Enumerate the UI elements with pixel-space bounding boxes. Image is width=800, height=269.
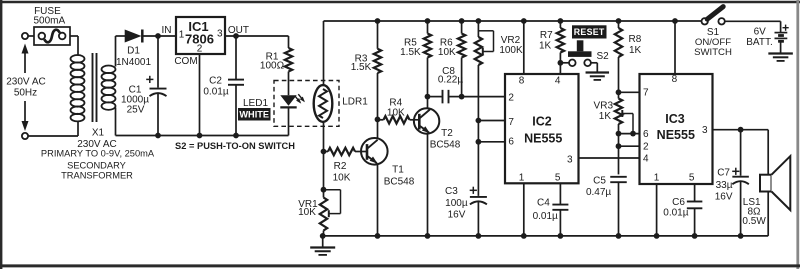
svg-text:IC3: IC3 — [665, 112, 685, 126]
svg-text:100µ: 100µ — [445, 198, 468, 209]
svg-text:NE555: NE555 — [524, 132, 562, 146]
svg-text:33µ: 33µ — [716, 180, 733, 191]
svg-text:T1: T1 — [392, 164, 404, 175]
svg-text:5: 5 — [689, 172, 695, 183]
svg-text:10K: 10K — [298, 207, 316, 218]
svg-text:6V: 6V — [754, 26, 767, 37]
svg-text:RESET: RESET — [574, 27, 605, 37]
svg-text:8: 8 — [672, 74, 678, 85]
svg-text:16V: 16V — [448, 210, 466, 221]
svg-text:LED1: LED1 — [243, 98, 268, 109]
svg-text:0.01µ: 0.01µ — [203, 87, 228, 98]
svg-text:100Ω: 100Ω — [260, 60, 285, 71]
svg-text:OUT: OUT — [228, 25, 249, 36]
svg-text:WHITE: WHITE — [239, 110, 269, 120]
svg-text:3: 3 — [702, 125, 708, 136]
svg-text:VR3: VR3 — [594, 100, 614, 111]
svg-text:BC548: BC548 — [384, 177, 415, 188]
svg-text:6: 6 — [508, 137, 514, 148]
svg-text:C2: C2 — [209, 75, 222, 86]
svg-text:1: 1 — [519, 172, 525, 183]
svg-text:0.01µ: 0.01µ — [533, 211, 558, 222]
svg-text:IN: IN — [162, 25, 172, 36]
svg-text:10K: 10K — [387, 108, 405, 119]
svg-text:SWITCH: SWITCH — [694, 47, 732, 58]
svg-text:T2: T2 — [441, 128, 453, 139]
svg-text:1K: 1K — [539, 41, 552, 52]
svg-text:3: 3 — [567, 154, 573, 165]
svg-text:SECONDARY: SECONDARY — [67, 160, 126, 170]
svg-text:10K: 10K — [333, 173, 351, 184]
svg-text:500mA: 500mA — [33, 16, 65, 27]
svg-text:BATT.: BATT. — [746, 37, 772, 48]
svg-text:4: 4 — [643, 153, 649, 164]
svg-text:0.22µ: 0.22µ — [438, 74, 463, 85]
svg-text:C3: C3 — [445, 186, 458, 197]
svg-text:1N4001: 1N4001 — [116, 57, 151, 68]
svg-text:NE555: NE555 — [657, 128, 695, 142]
svg-text:1.5K: 1.5K — [400, 47, 421, 58]
svg-text:2: 2 — [643, 142, 649, 153]
svg-text:3: 3 — [217, 28, 223, 39]
svg-text:2: 2 — [197, 43, 203, 54]
svg-text:16V: 16V — [715, 191, 733, 202]
svg-text:LDR1: LDR1 — [342, 97, 368, 108]
svg-text:8: 8 — [519, 75, 525, 86]
svg-text:50Hz: 50Hz — [14, 87, 37, 98]
svg-text:S2 = PUSH-TO-ON SWITCH: S2 = PUSH-TO-ON SWITCH — [175, 141, 295, 151]
svg-text:2: 2 — [508, 93, 514, 104]
svg-text:4: 4 — [555, 75, 561, 86]
svg-text:0.5W: 0.5W — [742, 216, 766, 227]
svg-text:0.47µ: 0.47µ — [586, 187, 611, 198]
svg-text:R2: R2 — [334, 161, 347, 172]
svg-text:1.5K: 1.5K — [351, 62, 372, 73]
svg-text:TRANSFORMER: TRANSFORMER — [61, 170, 133, 180]
svg-text:X1: X1 — [92, 127, 105, 138]
svg-text:C4: C4 — [537, 198, 550, 209]
svg-text:1: 1 — [654, 172, 660, 183]
svg-text:1: 1 — [179, 29, 185, 40]
svg-text:C6: C6 — [672, 197, 685, 208]
svg-text:C7: C7 — [717, 167, 730, 178]
svg-text:6: 6 — [643, 129, 649, 140]
svg-text:5: 5 — [555, 172, 561, 183]
svg-text:100K: 100K — [499, 45, 523, 56]
svg-text:0.01µ: 0.01µ — [663, 207, 688, 218]
svg-text:10K: 10K — [438, 47, 456, 58]
svg-text:7: 7 — [508, 117, 514, 128]
svg-text:COM: COM — [174, 56, 197, 67]
svg-text:25V: 25V — [127, 104, 145, 115]
svg-text:D1: D1 — [127, 45, 140, 56]
svg-text:R8: R8 — [629, 34, 642, 45]
svg-text:S2: S2 — [597, 51, 610, 62]
svg-text:R7: R7 — [540, 30, 553, 41]
svg-text:C5: C5 — [593, 175, 606, 186]
svg-text:230V AC: 230V AC — [6, 76, 45, 87]
svg-text:1K: 1K — [599, 111, 612, 122]
svg-text:IC2: IC2 — [532, 115, 552, 129]
svg-text:1K: 1K — [629, 45, 642, 56]
svg-text:BC548: BC548 — [430, 139, 461, 150]
svg-text:7: 7 — [643, 88, 649, 99]
svg-text:PRIMARY TO 0-9V, 250mA: PRIMARY TO 0-9V, 250mA — [41, 149, 155, 159]
